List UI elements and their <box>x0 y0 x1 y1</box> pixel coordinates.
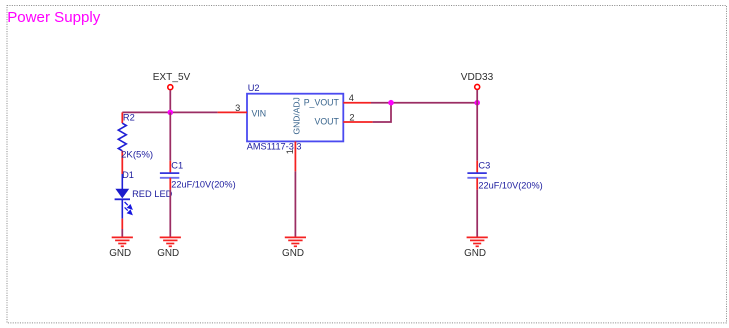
svg-text:C1: C1 <box>171 160 183 170</box>
junction EXT_5V node <box>168 110 174 116</box>
svg-text:22uF/10V(20%): 22uF/10V(20%) <box>478 181 542 191</box>
junction VDD33 node <box>474 100 480 106</box>
svg-text:VDD33: VDD33 <box>461 72 494 83</box>
power port VDD33 <box>461 72 494 89</box>
svg-text:GND: GND <box>109 248 131 259</box>
svg-text:P_VOUT: P_VOUT <box>304 98 340 108</box>
svg-text:22uF/10V(20%): 22uF/10V(20%) <box>171 179 235 189</box>
svg-text:1: 1 <box>285 149 295 154</box>
junction VOUT/P_VOUT <box>388 100 394 106</box>
svg-text:GND: GND <box>282 248 304 259</box>
resistor R2 <box>118 112 126 174</box>
svg-text:RED LED: RED LED <box>132 189 173 199</box>
svg-text:C3: C3 <box>478 161 490 171</box>
ground GND (C1 branch) <box>157 237 181 259</box>
capacitor C1 <box>160 161 179 190</box>
regulator U2 body <box>247 94 343 142</box>
pin 4 P_VOUT stub <box>343 102 371 104</box>
ground GND (D1 branch) <box>109 237 133 259</box>
svg-text:2K(5%): 2K(5%) <box>121 149 153 160</box>
power port EXT_5V <box>153 72 191 90</box>
svg-text:4: 4 <box>349 93 354 103</box>
wire C1 to ground <box>169 190 171 238</box>
wire node to C3 <box>476 103 478 161</box>
pin 1 to ground wire <box>294 171 296 237</box>
wire EXT_5V down to node <box>169 90 171 112</box>
LED D1 <box>115 174 132 229</box>
wire C3 to ground <box>476 190 478 238</box>
svg-text:VOUT: VOUT <box>314 117 339 127</box>
svg-text:U2: U2 <box>248 83 260 93</box>
ground GND (U2 branch) <box>282 237 306 259</box>
ground GND (C3 branch) <box>464 237 488 259</box>
svg-text:GND/ADJ: GND/ADJ <box>291 97 301 134</box>
wire VDD33 down to node <box>476 90 478 103</box>
svg-text:VIN: VIN <box>252 109 267 119</box>
pin 2 VOUT stub <box>343 121 372 123</box>
svg-text:Power Supply: Power Supply <box>7 9 101 26</box>
svg-text:D1: D1 <box>122 170 134 180</box>
pin 1 GND/ADJ stub <box>294 141 296 171</box>
wire horizontal EXT_5V node <box>122 111 217 113</box>
wire node to C1 <box>169 112 171 160</box>
svg-text:3: 3 <box>235 103 240 113</box>
wire P_VOUT to VDD33 node <box>371 102 477 104</box>
svg-text:2: 2 <box>349 113 354 123</box>
capacitor C3 <box>467 161 486 190</box>
svg-text:EXT_5V: EXT_5V <box>153 72 191 83</box>
wire D1 to ground <box>121 229 123 237</box>
wire VOUT up to P_VOUT net <box>373 103 391 122</box>
svg-text:R2: R2 <box>123 113 135 123</box>
svg-text:GND: GND <box>464 248 486 259</box>
svg-text:GND: GND <box>157 248 179 259</box>
pin 3 VIN stub <box>218 111 247 113</box>
